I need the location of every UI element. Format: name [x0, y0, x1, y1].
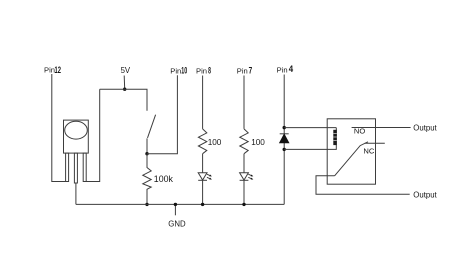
switch S1 blade [148, 115, 156, 138]
svg-text:Pin: Pin [277, 65, 288, 74]
wire R2 to LED1 [202, 154, 204, 173]
svg-text:Pin: Pin [170, 66, 181, 75]
svg-text:NC: NC [363, 147, 374, 156]
relay K1 coil [333, 130, 337, 145]
junction dot GND [174, 203, 177, 206]
svg-text:Output: Output [413, 123, 437, 132]
wire IR receiver pin2 to ground rail [75, 183, 77, 204]
svg-text:4: 4 [289, 64, 294, 75]
wire diode anode to relay coil bottom [284, 128, 336, 150]
junction dot 5V rail [123, 88, 126, 91]
node Pin 4 label [277, 64, 294, 75]
IR receiver U1 body [64, 120, 89, 153]
svg-text:Pin: Pin [44, 66, 55, 75]
svg-text:8: 8 [208, 66, 211, 77]
relay NC contact wire [365, 142, 385, 144]
wire Pin 8 to R2 [202, 76, 204, 129]
junction dot LED1 ground [201, 203, 204, 206]
wire Pin 4 vertical [283, 75, 285, 205]
ground rail wire [76, 203, 284, 205]
wire LED1 to ground rail [202, 180, 204, 204]
svg-text:10: 10 [181, 66, 187, 77]
node Pin 8 label [196, 66, 211, 77]
svg-text:GND: GND [168, 219, 186, 228]
resistor R3 100 [240, 129, 248, 154]
junction dot diode cathode node [283, 126, 286, 129]
wire LED2 to ground rail [243, 180, 245, 204]
junction dot switch node [145, 152, 148, 155]
diode D1 flyback [280, 134, 289, 143]
junction dot diode anode node [283, 148, 286, 151]
wire Pin 12 to IR receiver pin1 [52, 74, 66, 182]
wire 5V rail to switch S1 [100, 89, 147, 111]
node Pin 10 label [170, 66, 187, 77]
junction dot LED2 ground [242, 203, 245, 206]
wire 5V lead [123, 76, 126, 90]
LED LED2 [240, 173, 254, 181]
relay NO contact wire to Output [352, 127, 411, 129]
svg-text:100k: 100k [154, 174, 174, 184]
relay K1 outline box [327, 119, 375, 184]
wire relay common to Output bottom [316, 176, 410, 194]
svg-text:12: 12 [55, 65, 62, 76]
svg-text:7: 7 [249, 66, 253, 77]
node Pin 7 label [237, 66, 252, 77]
wire R3 to LED2 [243, 154, 245, 173]
svg-text:5V: 5V [121, 66, 131, 75]
svg-text:NO: NO [354, 127, 365, 136]
relay K1 common arm [335, 142, 368, 176]
svg-text:100: 100 [208, 138, 222, 147]
wire switch S1 to junction [146, 138, 148, 153]
resistor R1 100k [143, 154, 151, 205]
svg-text:Pin: Pin [196, 66, 207, 75]
IR receiver leg pin2 [74, 153, 77, 183]
resistor R2 100 [198, 129, 206, 154]
svg-text:100: 100 [251, 138, 265, 147]
svg-text:Pin: Pin [237, 66, 248, 75]
IR receiver leg pin1 [66, 153, 69, 181]
LED LED1 [198, 173, 212, 181]
wire Pin 7 to R3 [243, 76, 245, 129]
IR receiver leg pin3 [83, 153, 86, 181]
node Pin 12 label [44, 65, 61, 76]
svg-text:Output: Output [413, 190, 437, 199]
wire junction to Pin 10 [147, 75, 177, 153]
wire diode cathode to relay coil top [284, 127, 336, 129]
junction dot R1 at ground rail [145, 203, 148, 206]
ground stub wire [174, 204, 176, 215]
wire IR receiver pin3 to 5V rail [86, 89, 100, 181]
